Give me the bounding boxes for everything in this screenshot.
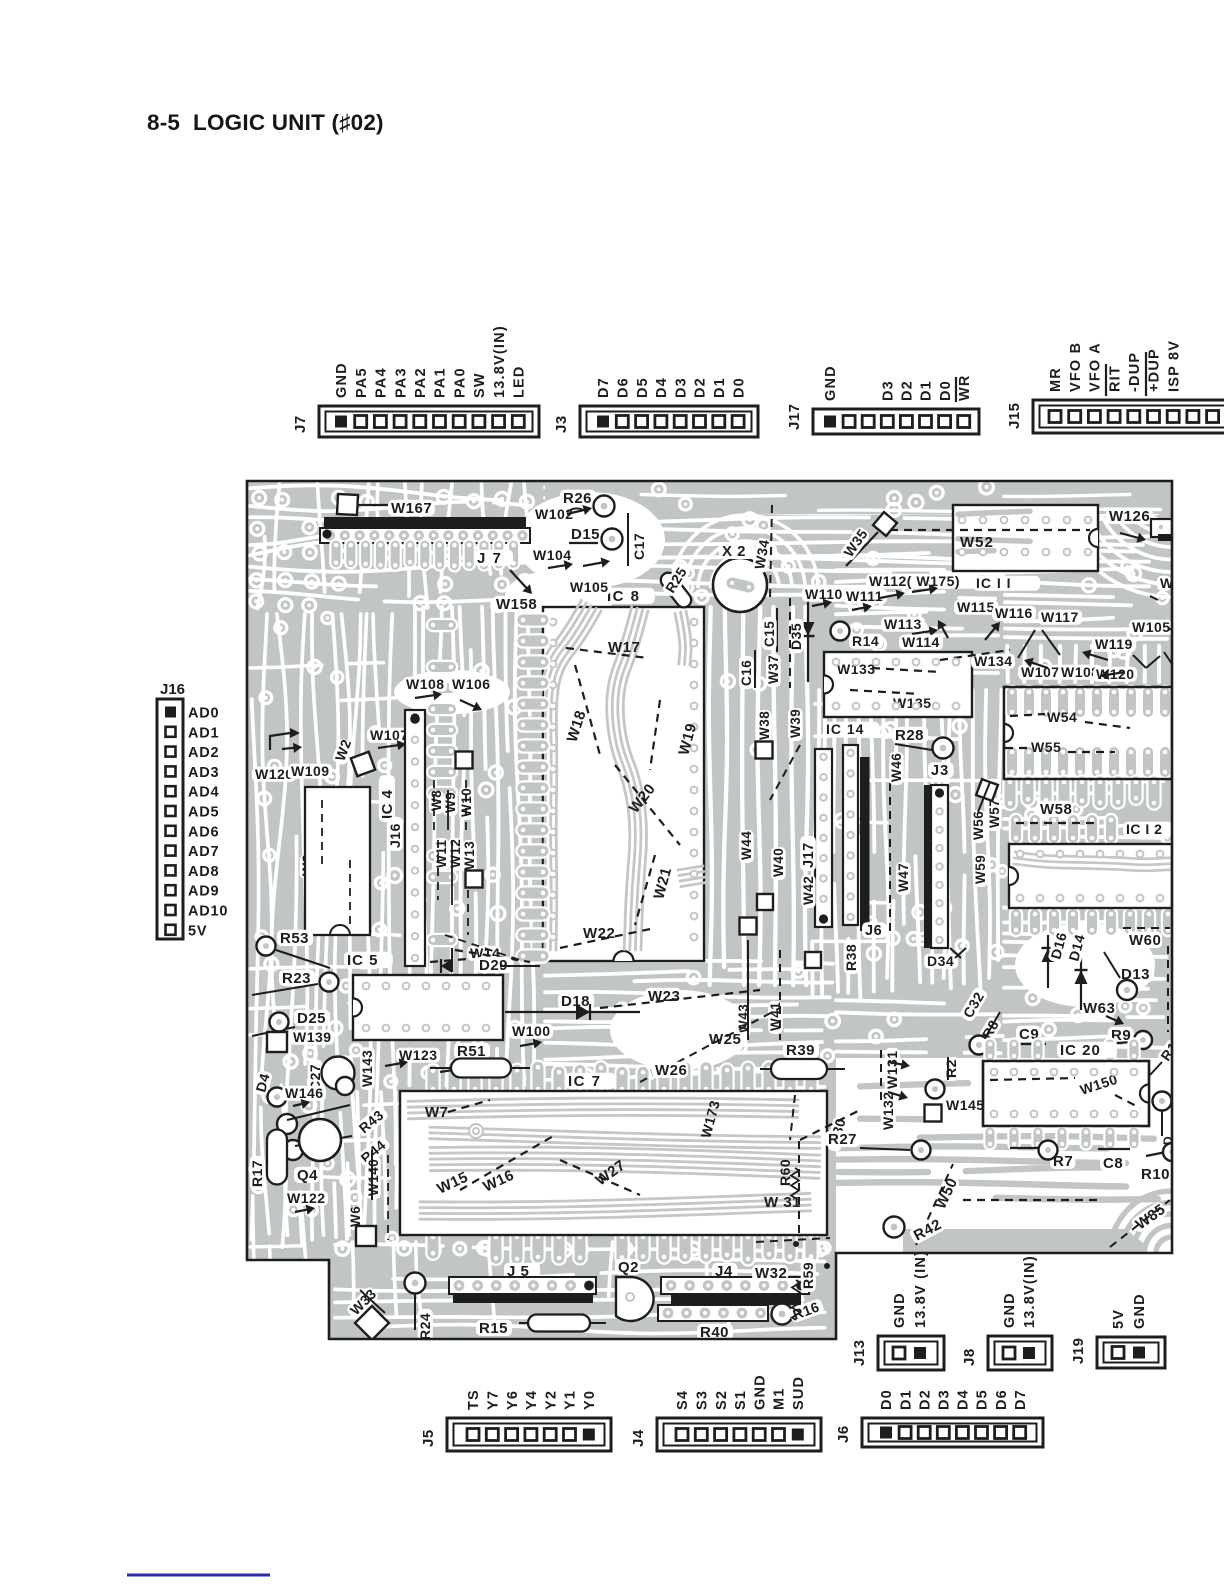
svg-text:R23: R23: [282, 970, 311, 987]
svg-text:W22: W22: [583, 925, 615, 942]
svg-text:W167: W167: [391, 500, 432, 517]
svg-text:W106: W106: [452, 676, 491, 692]
svg-text:W126: W126: [1109, 508, 1150, 525]
svg-text:W37: W37: [766, 655, 781, 684]
svg-text:W139: W139: [293, 1029, 332, 1045]
svg-text:R15: R15: [479, 1320, 508, 1337]
svg-text:J8: J8: [961, 1348, 978, 1366]
svg-text:D0: D0: [879, 1389, 895, 1410]
svg-text:W42: W42: [801, 876, 816, 905]
svg-text:D3: D3: [881, 380, 897, 401]
svg-text:W6: W6: [348, 1206, 363, 1227]
svg-text:W55: W55: [1031, 739, 1061, 755]
svg-text:D1: D1: [712, 377, 728, 398]
svg-text:J16: J16: [160, 681, 185, 698]
svg-text:TS: TS: [466, 1389, 482, 1410]
svg-text:W119: W119: [1095, 636, 1133, 652]
svg-text:W40: W40: [771, 848, 786, 877]
svg-text:W145: W145: [946, 1097, 985, 1113]
svg-text:J6: J6: [835, 1425, 852, 1443]
svg-text:W113: W113: [884, 616, 922, 632]
svg-text:W44: W44: [739, 831, 754, 860]
svg-text:W47: W47: [896, 863, 911, 892]
svg-text:D5: D5: [635, 377, 651, 398]
svg-text:J17: J17: [801, 842, 817, 868]
svg-text:GND: GND: [334, 362, 350, 398]
svg-text:IC 8: IC 8: [607, 588, 641, 605]
svg-text:X 2: X 2: [722, 543, 746, 560]
svg-text:W63: W63: [1083, 1000, 1115, 1017]
svg-text:S3: S3: [695, 1390, 711, 1410]
svg-text:Y7: Y7: [486, 1390, 502, 1410]
svg-text:R53: R53: [280, 930, 309, 947]
svg-text:Y1: Y1: [563, 1390, 579, 1410]
svg-text:W140: W140: [366, 1159, 381, 1196]
svg-text:S1: S1: [733, 1390, 749, 1410]
svg-text:D1: D1: [919, 380, 935, 401]
svg-text:C17: C17: [631, 533, 647, 560]
svg-text:13.8V(IN): 13.8V(IN): [1022, 1255, 1038, 1328]
svg-text:C8: C8: [1103, 1155, 1123, 1172]
svg-text:AD3: AD3: [188, 765, 219, 781]
svg-text:D0: D0: [731, 377, 747, 398]
svg-text:R14: R14: [852, 633, 879, 649]
svg-text:W39: W39: [788, 709, 803, 738]
svg-text:D25: D25: [297, 1010, 326, 1027]
svg-text:AD1: AD1: [188, 725, 219, 741]
svg-text:Y0: Y0: [582, 1390, 598, 1410]
svg-text:W38: W38: [757, 711, 772, 740]
svg-text:AD6: AD6: [188, 824, 219, 840]
svg-text:S4: S4: [675, 1390, 691, 1410]
svg-text:VFO B: VFO B: [1068, 342, 1084, 392]
svg-text:S2: S2: [714, 1390, 730, 1410]
svg-text:R28: R28: [895, 727, 924, 744]
svg-text:W23: W23: [648, 988, 680, 1005]
svg-text:AD5: AD5: [188, 805, 219, 821]
svg-text:D18: D18: [561, 993, 590, 1010]
svg-text:AD9: AD9: [188, 884, 219, 900]
svg-text:D7: D7: [596, 377, 612, 398]
svg-text:R10: R10: [1141, 1166, 1170, 1183]
svg-text:R38: R38: [843, 944, 859, 971]
svg-text:5V: 5V: [1111, 1309, 1127, 1329]
svg-text:MR: MR: [1048, 367, 1064, 392]
svg-text:C16: C16: [739, 660, 754, 686]
svg-text:J3: J3: [931, 763, 949, 779]
svg-text:IC 20: IC 20: [1060, 1042, 1101, 1059]
svg-text:W132: W132: [880, 1091, 896, 1130]
svg-text:Q4: Q4: [297, 1167, 318, 1184]
svg-text:SUD: SUD: [791, 1376, 807, 1410]
svg-text:R60: R60: [777, 1159, 793, 1186]
svg-text:Q2: Q2: [618, 1259, 639, 1276]
svg-text:D1: D1: [898, 1389, 914, 1410]
svg-text:WR: WR: [957, 374, 973, 401]
svg-text:J7: J7: [292, 415, 309, 433]
svg-text:PA2: PA2: [413, 367, 429, 398]
svg-text:J19: J19: [1070, 1337, 1087, 1364]
svg-text:J16: J16: [387, 823, 403, 848]
svg-text:GND: GND: [1132, 1293, 1148, 1329]
svg-text:W 31: W 31: [764, 1194, 801, 1211]
svg-text:D3: D3: [673, 377, 689, 398]
svg-text:IC 14: IC 14: [826, 721, 864, 737]
svg-text:GND: GND: [1002, 1292, 1018, 1328]
svg-text:GND: GND: [823, 365, 839, 401]
svg-text:Y4: Y4: [524, 1390, 540, 1410]
svg-text:-DUP: -DUP: [1127, 352, 1143, 392]
svg-text:W32: W32: [755, 1265, 787, 1282]
svg-text:W11: W11: [434, 839, 449, 868]
svg-text:W7: W7: [425, 1104, 449, 1121]
svg-text:W105: W105: [570, 579, 609, 595]
svg-text:C15: C15: [762, 621, 777, 647]
svg-text:W158: W158: [496, 596, 537, 613]
svg-text:R17: R17: [249, 1160, 265, 1187]
svg-text:W112( W175): W112( W175): [869, 573, 960, 589]
svg-text:W13: W13: [462, 841, 477, 870]
svg-text:D2: D2: [900, 380, 916, 401]
svg-text:RIT: RIT: [1107, 365, 1123, 392]
svg-text:AD2: AD2: [188, 745, 219, 761]
svg-text:W122: W122: [287, 1190, 326, 1206]
svg-text:W46: W46: [889, 753, 904, 782]
svg-text:W115: W115: [957, 599, 995, 615]
svg-text:D5: D5: [975, 1389, 991, 1410]
svg-text:+DUP: +DUP: [1147, 348, 1163, 392]
svg-text:W8: W8: [429, 790, 444, 811]
svg-text:AD10: AD10: [188, 904, 228, 920]
svg-text:J3: J3: [553, 415, 570, 433]
svg-text:J13: J13: [851, 1339, 868, 1366]
svg-text:W117: W117: [1041, 609, 1079, 625]
svg-text:W123: W123: [399, 1047, 438, 1063]
svg-text:ISP 8V: ISP 8V: [1166, 340, 1182, 392]
svg-text:W131: W131: [884, 1050, 900, 1089]
svg-text:R59: R59: [800, 1262, 816, 1289]
svg-text:LED: LED: [512, 365, 528, 398]
svg-text:W59: W59: [973, 855, 988, 884]
svg-text:W143: W143: [360, 1050, 375, 1087]
svg-text:W56: W56: [971, 811, 986, 840]
svg-text:13.8V(IN): 13.8V(IN): [492, 325, 508, 398]
svg-text:D15: D15: [571, 526, 600, 543]
svg-text:J 7: J 7: [477, 550, 502, 567]
svg-text:W114: W114: [902, 634, 940, 650]
svg-text:W60: W60: [1129, 932, 1161, 949]
svg-text:J5: J5: [420, 1429, 437, 1447]
svg-text:W105: W105: [1132, 619, 1171, 635]
svg-text:D2: D2: [693, 377, 709, 398]
svg-text:W9: W9: [443, 792, 458, 813]
svg-text:R39: R39: [786, 1042, 815, 1059]
svg-text:W57: W57: [987, 799, 1002, 828]
svg-text:W146: W146: [285, 1085, 324, 1101]
svg-text:D4: D4: [654, 377, 670, 398]
svg-text:AD8: AD8: [188, 864, 219, 880]
svg-text:GND: GND: [892, 1292, 908, 1328]
svg-text:W109: W109: [291, 763, 330, 779]
svg-text:R27: R27: [828, 1131, 857, 1148]
svg-text:Y2: Y2: [543, 1390, 559, 1410]
svg-text:D0: D0: [938, 380, 954, 401]
svg-text:W52: W52: [960, 534, 994, 551]
svg-text:PA1: PA1: [433, 367, 449, 398]
svg-text:J6: J6: [865, 923, 882, 939]
svg-text:W100: W100: [512, 1023, 551, 1039]
svg-text:D2: D2: [917, 1389, 933, 1410]
svg-text:R2: R2: [943, 1059, 959, 1078]
svg-text:W54: W54: [1047, 709, 1077, 725]
svg-text:IC 5: IC 5: [347, 952, 379, 969]
svg-text:IC I I: IC I I: [976, 575, 1012, 591]
svg-text:D7: D7: [1013, 1389, 1029, 1410]
svg-text:W120: W120: [255, 766, 294, 782]
svg-text:J15: J15: [1006, 402, 1023, 429]
svg-text:PA4: PA4: [374, 367, 390, 398]
svg-text:W107: W107: [370, 727, 409, 743]
svg-text:W134: W134: [974, 653, 1013, 669]
svg-text:AD0: AD0: [188, 706, 219, 722]
svg-text:8-5 LOGIC UNIT (♯02): 8-5 LOGIC UNIT (♯02): [147, 110, 384, 135]
svg-text:R24: R24: [417, 1313, 433, 1340]
svg-text:W58: W58: [1040, 801, 1072, 818]
svg-text:SW: SW: [472, 372, 488, 398]
svg-text:W116: W116: [995, 605, 1033, 621]
svg-text:PA3: PA3: [393, 367, 409, 398]
svg-text:IC I 2: IC I 2: [1126, 821, 1162, 837]
svg-text:AD4: AD4: [188, 785, 219, 801]
svg-text:IC 7: IC 7: [568, 1073, 602, 1090]
svg-text:5V: 5V: [188, 923, 207, 939]
svg-text:13.8V (IN): 13.8V (IN): [913, 1250, 929, 1328]
svg-text:AD7: AD7: [188, 844, 219, 860]
svg-text:D34: D34: [927, 953, 954, 969]
svg-text:W108: W108: [406, 676, 445, 692]
svg-text:W17: W17: [608, 639, 640, 656]
svg-text:M1: M1: [772, 1387, 788, 1410]
svg-text:D6: D6: [616, 377, 632, 398]
svg-text:W25: W25: [709, 1031, 741, 1048]
svg-text:GND: GND: [752, 1374, 768, 1410]
svg-text:PA0: PA0: [452, 367, 468, 398]
svg-text:W12: W12: [448, 839, 463, 868]
svg-text:W104: W104: [533, 547, 572, 563]
svg-text:D3: D3: [937, 1389, 953, 1410]
svg-text:VFO A: VFO A: [1088, 342, 1104, 392]
svg-text:PA5: PA5: [354, 367, 370, 398]
svg-text:Y6: Y6: [505, 1390, 521, 1410]
svg-text:J17: J17: [786, 403, 803, 430]
svg-text:D4: D4: [956, 1389, 972, 1410]
svg-text:W26: W26: [655, 1062, 687, 1079]
svg-text:J4: J4: [630, 1429, 647, 1447]
svg-text:R26: R26: [563, 490, 592, 507]
svg-text:IC 4: IC 4: [379, 789, 396, 819]
svg-text:W111: W111: [846, 588, 883, 604]
svg-text:D6: D6: [994, 1389, 1010, 1410]
